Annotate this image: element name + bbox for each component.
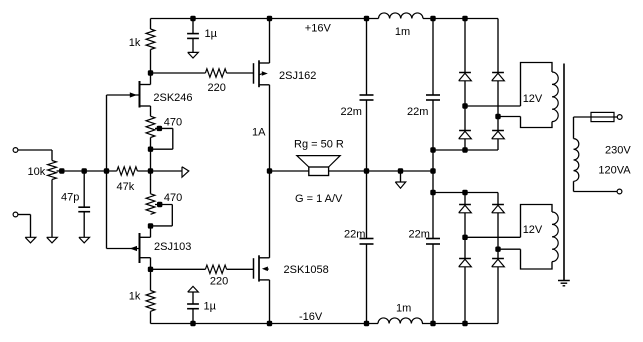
wire <box>497 139 499 150</box>
input terminal J2 (gnd) <box>13 212 18 217</box>
wire <box>497 193 499 205</box>
svg-text:2SK246: 2SK246 <box>153 92 192 104</box>
transistor Q4 2SK1058 gate bar <box>253 258 255 279</box>
svg-text:10k: 10k <box>28 166 46 178</box>
node <box>431 148 435 152</box>
wire bridge minus <box>433 149 498 151</box>
svg-text:47p: 47p <box>61 192 79 204</box>
diode D5 <box>459 204 471 206</box>
node <box>431 169 435 173</box>
node <box>364 16 368 20</box>
transistor Q3 2SJ162 gate bar <box>253 63 255 83</box>
node output/drain <box>267 169 271 173</box>
wire top rail left <box>151 18 379 20</box>
primary wire top <box>574 116 618 118</box>
diode D3 <box>459 130 471 132</box>
wire AC A <box>465 105 521 107</box>
svg-text:2SJ103: 2SJ103 <box>154 241 191 253</box>
node <box>431 321 435 325</box>
node <box>463 190 467 194</box>
transistor Q2 2SJ103 channel <box>139 233 141 263</box>
ground <box>188 52 199 58</box>
svg-text:12V: 12V <box>523 224 543 236</box>
wire top rail right <box>423 18 498 20</box>
wire <box>150 50 152 74</box>
wire <box>464 193 466 205</box>
node <box>148 147 152 151</box>
wire <box>227 72 254 74</box>
Q1 drain lead <box>140 84 151 86</box>
capacitor 1u lower <box>192 292 194 304</box>
svg-text:1µ: 1µ <box>204 301 217 313</box>
wire 220 lower <box>151 268 206 270</box>
svg-text:2SK1058: 2SK1058 <box>284 264 329 276</box>
wire <box>573 181 575 191</box>
pot 10k wiper <box>57 170 65 172</box>
wire <box>464 139 466 150</box>
capacitor 22m UR <box>432 19 434 96</box>
wire AC D <box>498 248 521 250</box>
svg-text:120VA: 120VA <box>598 165 631 177</box>
wire AC B <box>498 116 521 118</box>
corner 1k <box>150 19 152 30</box>
Q4 top lead <box>259 257 270 259</box>
svg-text:+16V: +16V <box>305 23 332 35</box>
node wiper dot <box>60 169 64 173</box>
input terminal J1 (hot) <box>13 148 18 153</box>
node D6/D8 junction <box>496 247 500 251</box>
node <box>364 321 368 325</box>
transistor Q1 2SK246 channel <box>139 81 141 108</box>
capacitor 22m LR <box>426 238 440 240</box>
wire <box>227 268 254 270</box>
svg-text:G = 1 A/V: G = 1 A/V <box>295 193 343 205</box>
wire <box>464 267 466 324</box>
Q4 arrow <box>266 269 269 270</box>
svg-text:1µ: 1µ <box>205 28 218 40</box>
inductor 1m upper <box>379 13 423 19</box>
svg-text:230V: 230V <box>605 145 631 157</box>
node Q2 drain junction <box>148 267 152 271</box>
svg-text:220: 220 <box>208 82 226 94</box>
mains terminal top <box>617 115 622 120</box>
ground (up) <box>188 286 199 292</box>
Q2 gate lead <box>107 248 140 250</box>
wire <box>269 280 271 324</box>
node <box>148 224 152 228</box>
wire <box>30 215 32 238</box>
svg-text:22m: 22m <box>407 106 428 118</box>
wire <box>497 267 499 324</box>
wire <box>51 150 53 161</box>
node <box>463 16 467 20</box>
node D5/D7 junction <box>463 235 467 239</box>
node 47p junction <box>82 169 86 173</box>
svg-text:Rg = 50 R: Rg = 50 R <box>294 139 344 151</box>
diode D2 <box>492 72 504 74</box>
svg-text:470: 470 <box>164 192 182 204</box>
trimmer upper wiper <box>155 127 173 129</box>
wiper tap dot <box>157 126 161 130</box>
wire <box>18 214 31 216</box>
wire <box>18 149 52 151</box>
svg-text:12V: 12V <box>523 93 543 105</box>
svg-text:1m: 1m <box>395 26 410 38</box>
Q1 source lead <box>140 105 151 107</box>
wire <box>150 311 152 323</box>
transformer secondary 12V upper box <box>521 63 553 107</box>
output arrow <box>182 167 189 177</box>
resistor 220 lower <box>205 265 226 273</box>
Q1 gate arrow <box>130 92 137 97</box>
wire <box>497 213 499 259</box>
mains terminal bottom <box>617 189 622 194</box>
svg-text:470: 470 <box>164 117 182 129</box>
trimmer 470 upper <box>146 116 155 137</box>
svg-text:1k: 1k <box>129 291 141 303</box>
Q1 gate lead <box>107 94 140 96</box>
Q3 bottom lead <box>259 84 270 86</box>
speaker LS1 horn <box>297 156 340 167</box>
ground output <box>400 171 402 182</box>
primary wire bottom <box>574 191 618 193</box>
potentiometer 10k <box>48 161 57 180</box>
node <box>463 321 467 325</box>
node gate-rail junction <box>104 169 108 173</box>
svg-text:1m: 1m <box>396 303 411 315</box>
ground <box>79 237 90 243</box>
node ground tap <box>398 169 402 173</box>
wire output <box>270 170 309 172</box>
wire <box>497 81 499 131</box>
node <box>431 16 435 20</box>
Q2 drain lead <box>140 257 151 259</box>
svg-text:22m: 22m <box>344 229 365 241</box>
svg-text:2SJ162: 2SJ162 <box>279 70 316 82</box>
capacitor 1u upper <box>192 19 194 34</box>
transformer primary 230V coil <box>574 139 579 182</box>
wire bottom rail right <box>422 323 498 325</box>
wire <box>150 138 152 172</box>
wire <box>497 19 499 73</box>
node source junction <box>148 169 152 173</box>
node D2/D4 junction <box>496 114 500 118</box>
wiper tap dot <box>158 202 162 206</box>
ground <box>47 237 58 243</box>
wire <box>150 269 152 290</box>
speaker LS1 body <box>309 167 329 176</box>
Q3 arrow <box>259 74 262 75</box>
svg-text:47k: 47k <box>117 181 135 193</box>
node <box>364 169 368 173</box>
svg-text:1k: 1k <box>129 37 141 49</box>
wire <box>137 170 182 172</box>
diode D7 <box>459 258 471 260</box>
Q3 top lead <box>259 62 270 64</box>
wire <box>51 180 53 238</box>
resistor 1k upper <box>146 29 155 50</box>
capacitor 22m LL <box>366 171 368 239</box>
ground <box>25 237 36 243</box>
core ground <box>558 280 570 282</box>
diode D8 <box>492 258 504 260</box>
svg-text:1A: 1A <box>252 127 266 139</box>
Q4 channel bar <box>258 255 260 281</box>
trimmer 470 lower <box>146 194 155 215</box>
Q2 source lead <box>140 236 151 238</box>
wire <box>150 171 152 194</box>
node R1k/220 junction <box>148 71 152 75</box>
wire output <box>329 170 433 172</box>
wire 220 upper <box>151 72 206 74</box>
diode D4 <box>492 130 504 132</box>
node <box>463 148 467 152</box>
node <box>191 321 195 325</box>
diode D6 <box>492 204 504 206</box>
node <box>267 321 271 325</box>
wire <box>464 81 466 131</box>
Q4 bottom lead <box>259 279 270 281</box>
node <box>431 190 435 194</box>
wire gate rail <box>106 95 108 249</box>
transformer secondary 12V lower box <box>521 205 553 238</box>
wire <box>269 171 271 258</box>
wire drain rail <box>269 19 271 64</box>
resistor 47k <box>117 167 138 175</box>
diode D1 <box>459 72 471 74</box>
wire bottom rail left <box>151 323 379 325</box>
fuse F1 <box>591 112 614 121</box>
node <box>267 16 271 20</box>
transformer core <box>563 64 565 281</box>
wire <box>573 117 575 139</box>
wire <box>464 213 466 259</box>
trimmer lower wiper <box>155 204 172 206</box>
capacitor 47p <box>83 171 85 207</box>
resistor 220 upper <box>205 69 226 77</box>
svg-text:22m: 22m <box>341 106 362 118</box>
inductor 1m lower <box>378 318 422 324</box>
wire AC C <box>465 236 521 238</box>
wire <box>269 85 271 171</box>
Q2 gate arrow <box>130 246 137 251</box>
capacitor 22m UL <box>366 19 368 96</box>
node D1/D3 junction <box>463 104 467 108</box>
node <box>191 16 195 20</box>
resistor 1k lower <box>146 291 155 312</box>
wire bridge plus <box>433 192 498 194</box>
svg-text:220: 220 <box>210 276 228 288</box>
svg-text:-16V: -16V <box>299 311 323 323</box>
wire input node <box>64 170 117 172</box>
Q3 channel bar <box>258 60 260 87</box>
svg-text:22m: 22m <box>409 229 430 241</box>
wire <box>464 19 466 73</box>
